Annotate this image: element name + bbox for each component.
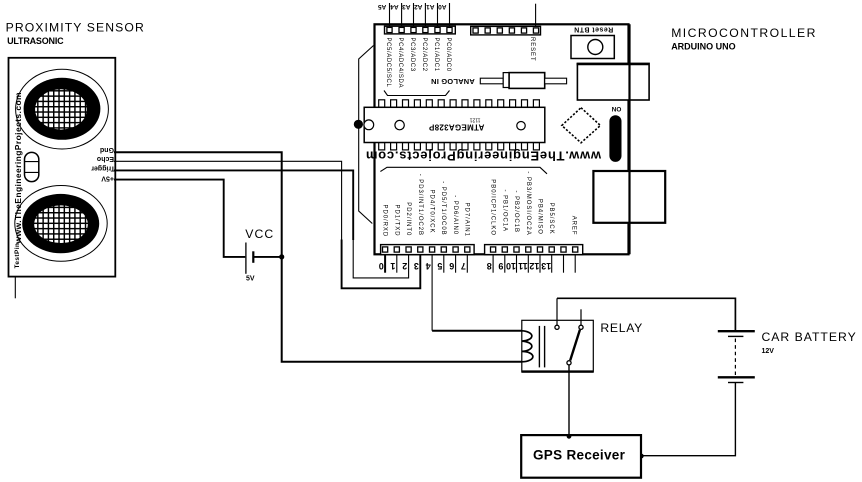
wire Trigger lower part to pin 2: [353, 240, 408, 278]
svg-text:5: 5: [437, 261, 442, 271]
svg-text:12V: 12V: [762, 348, 775, 355]
wire relay to car battery top: [557, 298, 735, 330]
svg-text:VCC: VCC: [245, 227, 274, 241]
logo dot: [354, 120, 363, 129]
analog pin stub A2: [424, 3, 426, 26]
svg-text:+5V: +5V: [101, 175, 114, 182]
digit labels 0-13: [379, 261, 552, 271]
svg-text:ULTRASONIC: ULTRASONIC: [7, 36, 64, 46]
svg-text:PB5/SCK: PB5/SCK: [548, 203, 554, 235]
usb connector: [593, 171, 665, 223]
junction at GPS right: [639, 454, 644, 459]
transducer T2 (bottom) outer ring: [15, 186, 107, 262]
svg-text:ATMEGA328P: ATMEGA328P: [428, 122, 484, 131]
svg-text:ON: ON: [611, 105, 621, 112]
svg-text:1: 1: [390, 261, 395, 271]
transducer T1 black ring: [24, 78, 101, 140]
svg-text:www.TheEngineeringProjects.com: www.TheEngineeringProjects.com: [13, 92, 23, 245]
wire battery bottom to GPS right: [642, 383, 736, 456]
analog pin stub A1: [437, 3, 439, 26]
svg-text:MICROCONTROLLER: MICROCONTROLLER: [671, 26, 817, 40]
svg-text:A2: A2: [414, 3, 423, 10]
wire Trigger from sensor: [114, 170, 353, 240]
capacitor (black pill): [609, 115, 621, 162]
transducer T2 black ring: [22, 194, 99, 253]
GPS receiver box: [521, 435, 641, 478]
svg-text:PC3/ADC3: PC3/ADC3: [409, 38, 415, 72]
svg-text:PB0/ICP1/CLKO: PB0/ICP1/CLKO: [490, 179, 496, 236]
digital pin stubs: [384, 255, 386, 273]
crystal Y1 on sensor: [25, 152, 39, 181]
svg-text:3: 3: [414, 261, 419, 271]
digital bracket: [380, 167, 547, 174]
svg-text:PD0/RXD: PD0/RXD: [382, 205, 388, 238]
sensor TestPin stub wire: [14, 277, 16, 298]
svg-text:Gnd: Gnd: [100, 146, 114, 153]
car battery BT1: [718, 330, 755, 332]
analog pin stub A5: [389, 3, 391, 26]
wire VCC battery to junction: [254, 256, 282, 258]
svg-text:A3: A3: [402, 3, 411, 10]
svg-text:- PD6/AIN0: - PD6/AIN0: [452, 195, 458, 235]
svg-text:Reset BTN: Reset BTN: [574, 26, 613, 33]
wire +5V from sensor to VCC battery: [114, 180, 245, 257]
power jack: [577, 63, 649, 100]
svg-text:5V: 5V: [246, 276, 255, 283]
reset stub wire: [535, 4, 537, 27]
board left bracket: [359, 46, 374, 224]
svg-text:8: 8: [487, 261, 492, 271]
digital header 8-13 + AREF: [485, 245, 583, 255]
svg-text:A5: A5: [378, 3, 387, 10]
svg-text:CAR BATTERY: CAR BATTERY: [762, 330, 857, 344]
svg-text:0: 0: [379, 261, 384, 271]
analog pin stub A3: [413, 3, 415, 26]
svg-text:PD2/INT0: PD2/INT0: [405, 202, 411, 236]
junction node at VCC: [279, 254, 284, 259]
svg-text:- PD3/INT1/OC2B: - PD3/INT1/OC2B: [417, 174, 423, 236]
svg-text:13: 13: [541, 261, 551, 271]
wire Echo lower part to pin 3: [342, 240, 421, 289]
transducer T1 mesh: [35, 89, 87, 129]
svg-text:- PB1/OC1A: - PB1/OC1A: [501, 190, 507, 233]
relay switch arm: [570, 330, 580, 361]
analog bracket: [384, 91, 450, 96]
svg-text:ANALOG IN: ANALOG IN: [431, 77, 475, 86]
svg-text:Echo: Echo: [97, 155, 114, 162]
svg-text:2: 2: [402, 261, 407, 271]
redraw board right edge over jacks: [628, 24, 630, 254]
wire relay common to GPS: [568, 365, 570, 436]
relay contacts: [555, 325, 559, 329]
digital header 0-7: [381, 245, 475, 255]
relay contact wires: [556, 298, 558, 325]
digital pin function labels: [382, 171, 577, 237]
svg-text:PC0/ADC0: PC0/ADC0: [445, 38, 451, 72]
reset header: [471, 26, 541, 35]
relay RL1 box: [522, 320, 594, 372]
battery VCC long plate: [245, 243, 247, 274]
svg-text:4: 4: [426, 261, 431, 271]
svg-text:PROXIMITY SENSOR: PROXIMITY SENSOR: [6, 21, 145, 35]
svg-text:TestPin: TestPin: [14, 243, 21, 269]
svg-text:1121: 1121: [470, 116, 481, 122]
svg-text:RELAY: RELAY: [600, 321, 643, 335]
svg-text:PC5/ADC5/SCL: PC5/ADC5/SCL: [385, 38, 391, 88]
svg-text:A0: A0: [438, 3, 447, 10]
svg-text:RESET: RESET: [529, 37, 535, 62]
svg-text:7: 7: [461, 261, 466, 271]
svg-text:PD7/AIN1: PD7/AIN1: [464, 203, 470, 237]
relay core: [538, 326, 540, 368]
svg-text:- PB2/OC1B: - PB2/OC1B: [513, 191, 519, 234]
ultrasonic sensor U1 body: [9, 58, 116, 277]
wire Gnd from sensor to junction and relay coil bottom: [114, 152, 522, 362]
transducer T1 (top) outer ring: [16, 69, 109, 149]
battery VCC short plate: [252, 251, 254, 262]
svg-text:PC4/ADC4/SDA: PC4/ADC4/SDA: [397, 38, 403, 89]
svg-text:ARDUINO UNO: ARDUINO UNO: [671, 41, 736, 51]
svg-text:6: 6: [449, 261, 454, 271]
svg-text:GPS Receiver: GPS Receiver: [533, 448, 626, 463]
analog header A5-A0: [385, 26, 456, 34]
svg-text:PD1/TXD: PD1/TXD: [393, 205, 399, 237]
Arduino board outline: [375, 24, 629, 254]
transducer T2 mesh: [34, 205, 88, 243]
svg-text:10: 10: [506, 261, 516, 271]
analog pin stub A4: [401, 3, 403, 26]
svg-text:AREF: AREF: [571, 216, 577, 236]
svg-text:- PD5/T1/OC0B: - PD5/T1/OC0B: [440, 181, 446, 235]
svg-text:- PB3/MOSI/OC2A: - PB3/MOSI/OC2A: [525, 171, 531, 235]
svg-text:PC1/ADC1: PC1/ADC1: [433, 38, 439, 72]
svg-text:www.TheEngineeringProjects.com: www.TheEngineeringProjects.com: [365, 149, 602, 164]
svg-text:PD4/T0/XCK: PD4/T0/XCK: [429, 190, 435, 234]
reset button: [571, 36, 614, 59]
svg-text:PC2/ADC2: PC2/ADC2: [421, 38, 427, 72]
crystal oscillator X1: [480, 78, 503, 84]
svg-text:A1: A1: [426, 3, 435, 10]
junction at GPS top: [567, 434, 572, 439]
analog pin stub A0: [449, 3, 451, 26]
IC U2 ATMEGA328: [379, 100, 540, 150]
crystal XT (diamond): [562, 108, 601, 143]
svg-text:A4: A4: [390, 3, 399, 10]
svg-text:12: 12: [529, 261, 539, 271]
wire from pin 4 to relay coil top: [431, 255, 433, 331]
svg-text:PB4/MISO: PB4/MISO: [537, 199, 543, 235]
wire Echo from sensor: [114, 161, 342, 240]
svg-text:11: 11: [518, 261, 528, 271]
relay coil: [522, 331, 533, 362]
svg-text:Trigger: Trigger: [91, 164, 115, 171]
svg-text:9: 9: [498, 261, 503, 271]
analog pads: [387, 27, 452, 32]
